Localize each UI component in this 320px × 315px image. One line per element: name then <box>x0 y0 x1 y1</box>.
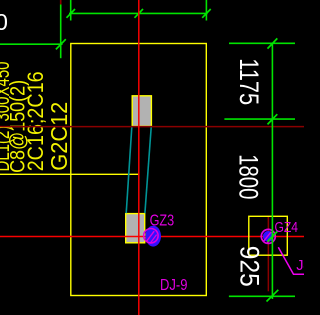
tick at (272.4,295.5) <box>267 290 279 302</box>
dimension line left y=44.2 <box>0 43 63 45</box>
tick at (272.4,119.1) <box>268 114 278 124</box>
tick top-mid <box>135 9 144 18</box>
tick top-left <box>67 9 76 18</box>
svg-text:GZ4: GZ4 <box>275 220 299 236</box>
svg-text:GZ3: GZ3 <box>150 213 175 230</box>
svg-text:1800: 1800 <box>233 154 264 199</box>
extension line top-left x=70.7 <box>70 0 72 21</box>
anchor bolt square small yellow rect right <box>249 216 287 255</box>
grid line red horizontal y=236.5 <box>0 236 304 238</box>
GZ3 hatch slashes <box>147 231 155 241</box>
cyan brace line 2 <box>145 127 151 213</box>
dim boundary line y=43.3 <box>229 42 295 44</box>
svg-text:0: 0 <box>0 9 8 35</box>
svg-text:1175: 1175 <box>234 58 265 105</box>
GZ4 symbol blue disc <box>263 231 274 242</box>
svg-text:925: 925 <box>234 246 265 287</box>
dim boundary line y=119.1 <box>224 118 295 120</box>
grid stub maroon vertical x=268.35 <box>267 217 269 291</box>
dim boundary line y=296.3 <box>229 295 295 297</box>
beam axis maroon horizontal y=126.6 <box>0 126 304 128</box>
grid line red vertical x=138.8 <box>138 0 140 315</box>
tick at (60.7,44.2) <box>56 39 66 49</box>
axis tip dark red at x=60.7 <box>60 0 62 5</box>
foundation outline big yellow rect <box>71 44 207 296</box>
top dimension line y=13.4 <box>69 12 208 14</box>
tick at (272.4,236.3) <box>268 231 278 241</box>
svg-text:G2C12: G2C12 <box>46 102 72 171</box>
column section bottom rect2 gray fill <box>126 214 145 243</box>
GZ3 symbol blue disc <box>145 226 161 247</box>
svg-text:DJ-9: DJ-9 <box>160 277 188 294</box>
svg-text:2C16;2C16: 2C16;2C16 <box>23 71 48 171</box>
extension line green left <box>60 5 62 59</box>
GZ4 symbol magenta ring <box>261 229 275 243</box>
tick at (272.4,43.3) <box>268 38 278 48</box>
GZ4 hatch slashes <box>264 232 272 241</box>
tick top-right <box>202 9 211 18</box>
GZ3 symbol magenta ring <box>144 229 158 243</box>
extension line top-right x=206.4 <box>205 0 207 21</box>
svg-text:J4: J4 <box>296 258 304 274</box>
leader magenta to J4 <box>278 247 306 274</box>
column section top rect1 gray fill <box>132 96 151 127</box>
cyan brace line 1 <box>126 127 132 213</box>
dim line vertical right x=272.4 <box>271 43 273 299</box>
beam annotation underline yellow y=174.3 <box>0 173 139 175</box>
